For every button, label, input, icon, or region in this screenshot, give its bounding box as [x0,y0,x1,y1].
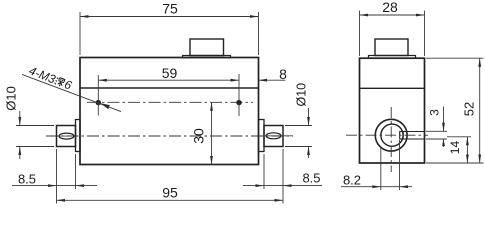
dim 8.5 left arrow a [48,184,57,187]
M3 hole dot left vertical line [97,75,99,116]
dim 8.5 left extension b [75,154,77,189]
left flange boss [76,120,81,152]
dim dia10 right extension bottom [285,146,312,148]
dim 59 arrow left [98,79,107,82]
M3 holes centerline [87,101,253,103]
dim 3 extension bottom [426,138,447,140]
dim 8.5 right extension a [263,154,265,189]
dim 30 arrow top [210,102,213,111]
dim 52 arrow top [478,58,481,66]
svg-text:59: 59 [162,65,178,81]
dim dia10 right extension top [285,125,312,127]
leader arrow 4-M3 [100,103,110,109]
connector flange side view [369,56,416,59]
svg-text:75: 75 [162,1,178,17]
dim 8.2 arrow a [372,185,381,188]
dim 3 arrow bottom [442,139,445,146]
dim 14 arrow top [466,137,469,146]
dim 8.2 extension a [380,148,382,190]
svg-text:8.5: 8.5 [18,172,36,187]
dim dia10 left extension bottom [16,146,54,148]
dim 3 extension top [426,130,447,132]
circle horizontal centerline [346,134,428,136]
M3 hole dot right [236,100,241,105]
dim 3 line top [443,107,445,132]
svg-text:95: 95 [162,185,178,201]
connector box front view [190,39,224,56]
dim 28 arrow left [360,14,369,17]
svg-text:8.2: 8.2 [343,173,361,188]
svg-text:28: 28 [382,0,398,15]
dim 14 extension top [447,136,471,138]
dim 8.2 line [341,186,412,188]
svg-text:8: 8 [279,66,287,82]
dim 8.5 left line [12,185,97,187]
svg-text:Ø10: Ø10 [295,83,309,107]
svg-text:3: 3 [427,109,441,116]
shaft outer circle [375,119,407,151]
dim 30 arrow bottom [210,156,213,165]
svg-text:8.5: 8.5 [302,171,320,186]
svg-text:52: 52 [462,102,477,116]
front view body outline [80,58,259,165]
dim 52 extension bottom [426,162,484,164]
main shaft centerline [46,135,293,137]
right flange boss [259,120,265,152]
shaft inner circle [381,124,403,146]
front body inner horizontal line [80,87,259,89]
dim 95 extension left [56,190,58,204]
dim 8 line [259,79,286,81]
dim 8.5 right arrow b [283,184,292,187]
dim dia10 left arrow bottom [18,147,21,156]
dim 59 line [98,79,239,81]
right shaft [264,126,283,147]
dim 52 line [479,58,481,163]
connector box side view [375,39,408,56]
svg-text:Ø10: Ø10 [4,86,19,111]
dim 8.5 right extension b [282,149,284,204]
dim 59 arrow right [231,79,240,82]
dim 8.5 right line [243,185,322,187]
dim dia10 right arrow bottom [307,147,310,156]
hole line top to body edge [403,131,424,133]
dim 30 line [211,102,213,164]
dim 52 arrow bottom [478,155,481,164]
dim dia10 left arrow top [18,117,21,126]
dim 8 arrow [259,79,268,82]
dim 8.5 left extension a [56,149,58,190]
M3 hole dot right vertical line [238,74,240,116]
side body inner horizontal line [360,87,425,89]
svg-text:14: 14 [448,141,462,155]
dim 28 extension right [424,11,426,57]
dim dia10 right line top [308,108,310,126]
dim dia10 right arrow top [307,117,310,126]
dim 52 extension top [426,57,484,59]
dim 8.2 arrow b [400,185,409,188]
leader line 4-M3 [22,74,121,111]
dim 95 arrow left [57,199,66,202]
dim 8.5 left arrow b [76,184,85,187]
dim 14 arrow bottom [466,155,469,164]
label 4-M3 deep 6 [27,64,74,93]
left shaft cross hole ellipse [59,133,74,139]
glyph shen (depth) [54,77,65,88]
dim 75 arrow left [80,15,89,18]
dim dia10 right line bottom [308,147,310,159]
right shaft hole centerline [265,135,293,137]
dim 95 arrow right [275,199,284,202]
dim 28 line [360,14,425,16]
circle vertical centerline [390,107,392,172]
dim 28 arrow right [416,14,425,17]
dim 3 line bottom [443,139,445,147]
dim dia10 left line top [19,111,21,126]
dim 3 arrow top [442,123,445,132]
dim dia10 left extension top [16,125,54,127]
dim 8.5 right arrow a [256,184,265,187]
dim 14 line [466,137,468,163]
dim 75 extension left [79,12,81,55]
hole line bottom to body edge [403,138,424,140]
dim 75 extension right [258,12,260,55]
dim 8.2 extension b [399,140,401,190]
dim dia10 left line bottom [19,147,21,160]
dim 75 arrow right [250,15,259,18]
dim 75 line [80,16,259,18]
svg-text:30: 30 [190,128,206,144]
left shaft hole centerline [58,135,76,137]
M3 hole dot left [96,100,101,105]
connector flange front view [183,56,231,58]
dim 95 line [57,199,284,201]
right shaft cross hole ellipse [266,133,281,139]
side view body outline [360,58,425,163]
set screw hole notch [400,132,404,140]
left shaft [57,126,76,147]
dim 28 extension left [359,11,361,57]
